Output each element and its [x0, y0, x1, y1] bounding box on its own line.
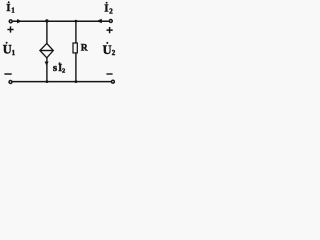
minus sign (left port) — [4, 73, 11, 74]
resistor R body — [73, 43, 77, 53]
node junction dot bottom-left branch — [46, 80, 49, 83]
minus sign (right port) — [106, 73, 112, 74]
current arrow I1 (points right) — [17, 19, 22, 23]
svg-text:2: 2 — [62, 68, 65, 75]
label U2 — [103, 42, 116, 57]
terminal bottom-right — [111, 80, 114, 83]
current arrow I2 (points left) — [97, 19, 102, 24]
wire right branch lower — [75, 53, 77, 82]
label I2 — [104, 2, 113, 16]
svg-text:1: 1 — [12, 49, 16, 57]
label U1 — [3, 42, 16, 57]
label sI2 (source value) — [53, 62, 65, 75]
source current direction arrowhead (points down) — [45, 62, 49, 66]
svg-text:1: 1 — [11, 6, 15, 14]
terminal top-right — [109, 20, 112, 23]
wire bottom rail — [12, 81, 111, 83]
plus sign (right port) — [107, 27, 113, 33]
svg-text:s: s — [53, 62, 58, 74]
svg-text:U: U — [3, 43, 12, 57]
terminal top-left — [9, 20, 12, 23]
svg-text:2: 2 — [112, 49, 116, 57]
node junction dot top-left branch — [45, 19, 48, 22]
plus sign (left port) — [7, 26, 13, 32]
wire left branch upper — [46, 21, 48, 43]
wire left branch lower — [46, 57, 48, 81]
svg-text:U: U — [103, 43, 112, 57]
svg-text:I: I — [6, 2, 10, 14]
svg-text:I: I — [104, 3, 108, 15]
controlled current source sI2 (diamond with cross bar) — [40, 43, 53, 57]
node junction dot top-right branch — [75, 20, 78, 23]
svg-text:2: 2 — [109, 7, 113, 15]
wire top rail — [12, 20, 109, 22]
node junction dot bottom-right branch — [75, 80, 78, 83]
label I1 — [6, 1, 15, 14]
wire right branch upper — [75, 21, 77, 42]
terminal bottom-left — [9, 81, 12, 84]
svg-text:R: R — [81, 44, 88, 54]
